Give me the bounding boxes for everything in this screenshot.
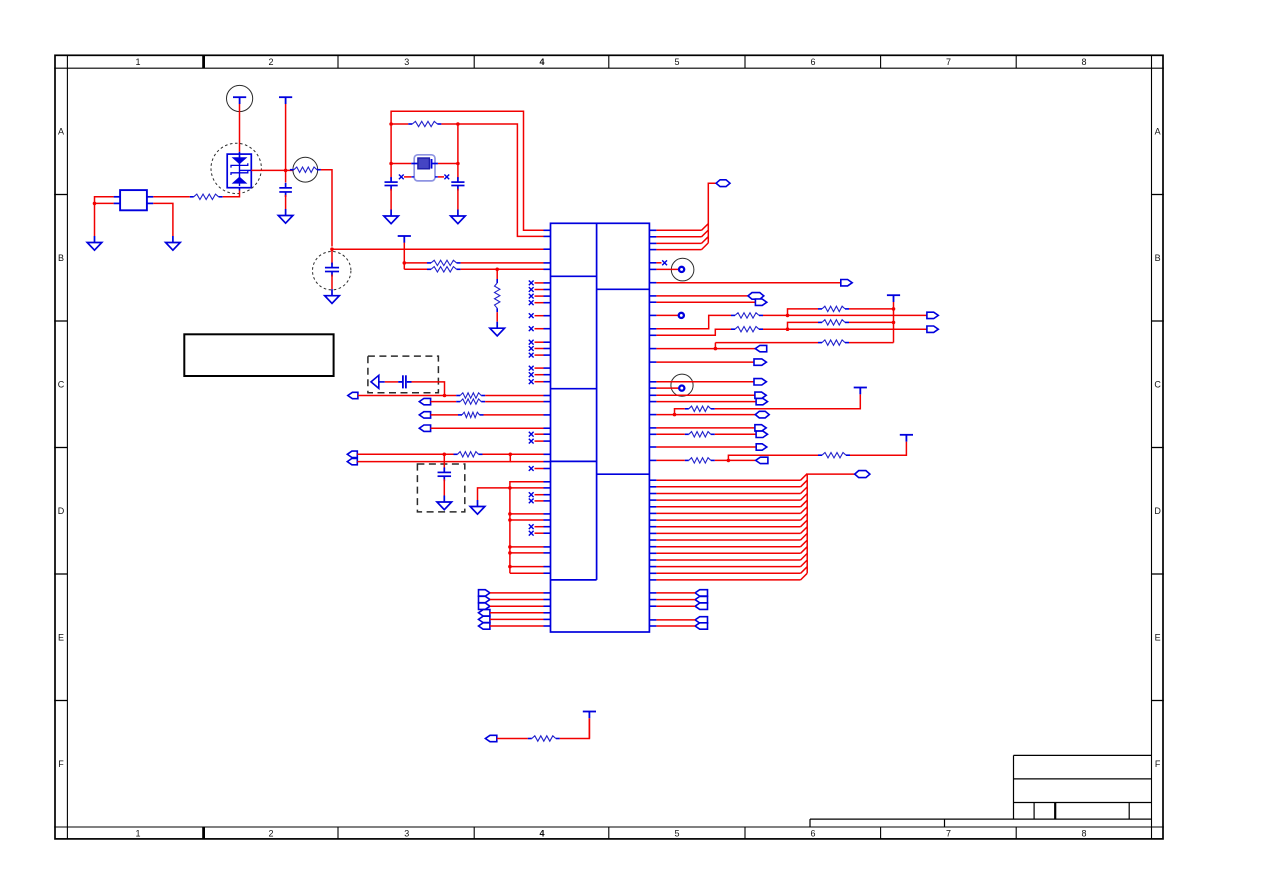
riser to row 408.8 [675,409,685,415]
wire data bus bit 9 [649,539,656,541]
off-page oval BR4 [695,617,707,623]
resistor R14 [818,321,822,323]
junction 728.4/460.4 [727,459,731,463]
wire R19 to VCC T2 [850,442,906,456]
wire R20 to VCC T [560,719,590,739]
wire bus row 513.9 [508,512,512,516]
column tick top 5 [608,55,610,68]
ground right of DB2 [470,500,485,514]
wire BL6 to IC [490,625,544,627]
svg-text:2: 2 [268,57,273,67]
riser to row 455.2 [728,455,818,460]
off-page oval BR2 [695,596,707,602]
wire C3 to ground [390,189,392,210]
wire R12 to VCC bus [849,308,894,310]
wire ground to bus net [478,488,510,500]
junction crystal left top [389,122,393,126]
power T-bar VCC 860 [854,388,867,395]
IC left pin 552.9 [544,552,551,554]
wire BR1 [649,592,656,594]
IC left pin 236.4 [544,235,551,237]
note box [184,334,333,376]
wire gnd row to IC [510,487,544,489]
off-page oval left 348.6 [755,345,766,351]
IC left pin 461.6 [544,461,551,463]
wire to oval 447.0 [649,446,656,448]
top ruler band line [54,67,1164,69]
junction 787.5/329.2 [786,327,790,331]
resistor R17 [685,433,689,435]
IC left pin 428.2 [544,427,551,429]
wire R15 to VCC bus corner [849,342,894,344]
no-connect left 526.7 [544,526,551,528]
off-page oval 381.8 [754,379,766,385]
row tick left 3 [54,573,67,575]
no-connect left 381.7 [544,381,551,383]
wire data bus bit 10 [649,546,656,548]
capacitor C6 [438,467,452,481]
wire BL1 to IC [490,592,544,594]
off-page oval OP2 [419,398,430,404]
wire data bus bit 15 [649,579,656,581]
wire to hex 295.9 [649,295,656,297]
resistor R12 [818,308,822,310]
off-page oval 434.3 [756,431,767,437]
svg-text:B: B [58,253,64,263]
wire 715.4 riser [714,343,716,349]
column tick bottom 7 [880,827,882,839]
right ruler band line [1151,55,1153,839]
off-page oval 315.4 [927,312,938,318]
wire J1 pin2 join [95,202,114,204]
wire R8 to IC [485,401,543,403]
wire data bus bit 14 [649,572,656,574]
wire top bus bit 2 [649,242,656,244]
wire to oval 302.2 [649,301,656,303]
no-connect left 468.5 [544,468,551,470]
ground in DB2 [437,496,452,510]
wire BR4 [649,619,656,621]
connector J1 pins [114,197,154,204]
wire VCC to TVS [239,104,241,152]
resistor R19 [818,454,822,456]
resistor R9 [458,414,462,416]
off-page oval 395.3 [755,392,766,398]
power T-bar bottom [583,712,596,719]
wire OP4 to IC [431,427,544,429]
wire BR5 [649,625,656,627]
column tick bottom 6 [744,827,746,839]
svg-text:E: E [1155,633,1161,643]
resistor R4 [404,268,427,270]
off-page oval BL2 [479,596,490,602]
wire crystal right vertical [457,124,459,179]
wire bus row 546.9 [508,545,512,549]
connector J1 box [120,190,147,210]
resistor R11 [731,314,735,316]
junction net row1 [443,394,447,398]
IC left pin 573.2 [544,572,551,574]
test pad TP1 circled [671,258,694,281]
svg-text:D: D [1154,506,1161,516]
svg-text:B: B [1155,253,1161,263]
junction pair link [509,453,513,457]
title block [810,755,1152,827]
wire R17 row 434.3 [649,433,656,435]
port arrow in DB1 [371,375,379,388]
wire data bus bit 0 [649,479,656,481]
ground at J1 pin4 [166,236,181,250]
wire crystal left vertical [390,124,392,179]
IC left pin 262.9 [544,262,551,264]
svg-text:A: A [58,126,64,136]
svg-text:8: 8 [1081,829,1086,839]
svg-text:6: 6 [810,57,815,67]
ground at J1 [87,236,102,250]
dashed box DB1 [368,356,439,393]
svg-text:F: F [58,759,64,769]
off-page oval BL1 [479,590,490,596]
capacitor C5 series [398,375,411,388]
junction R3 [403,261,407,265]
wire C5 to net row1 [412,382,445,396]
wire bus row 573.2 [510,572,544,574]
resistor R10 [454,453,458,455]
junction 787.5/315.4 [786,314,790,318]
row tick left 0 [54,194,67,196]
wire elbow 328.8 [649,328,656,330]
column tick bottom 5 [608,827,610,839]
wire elbow 335.3 [649,334,656,336]
wire R4 to IC [461,268,544,270]
svg-text:8: 8 [1081,57,1086,67]
off-page oval 427.9 [755,425,766,431]
resistor R6 [391,123,408,125]
off-page oval OP3 [419,412,430,418]
no-connect left 494.7 [544,494,551,496]
wire C4 to ground [457,189,459,210]
junction crystal left pin [389,162,393,166]
crystal Y1 [414,155,435,181]
wire R9 to IC [484,414,544,416]
wire top bus bit 1 [649,236,656,238]
no-connect left 441.1 [544,440,551,442]
off-page oval 401.6 [756,398,767,404]
svg-text:7: 7 [946,829,951,839]
bottom ruler band line [54,826,1164,828]
resistor R15 [818,342,822,344]
row tick right 3 [1152,573,1164,575]
svg-text:E: E [58,633,64,643]
svg-text:F: F [1155,759,1161,769]
wire OP3 to R9 [431,414,458,416]
no-connect left 296.1 [544,295,551,297]
ground at R5 [490,322,505,336]
wire J1 pin1 to ground [95,197,114,236]
IC U1 body [551,223,650,632]
IC left pin 487.9 [544,487,551,489]
no-connect left 289.5 [544,289,551,291]
junction DB2 tap [443,453,447,457]
svg-text:D: D [58,506,65,516]
wire BR2 [649,599,656,601]
column tick top 2 [202,55,205,68]
wire T-bar crossing to R3 R4 [403,243,405,270]
wire TVS bottom [223,191,240,197]
column tick bottom 4 [473,827,475,839]
column tick top 3 [337,55,339,68]
ground at C1 [278,209,293,223]
resistor R7 [456,395,460,397]
junction VCC 322.4 [892,321,896,325]
junction 715.4/348.6 [714,347,718,351]
wire R13 to oval [763,328,927,330]
junction 674.5/414.6 [673,413,677,417]
IC left pin 566.6 [544,566,551,568]
resistor R1 [190,196,194,198]
column tick bottom 8 [1015,827,1017,839]
power T-bar net B [398,236,411,243]
off-page oval BR3 [695,603,707,609]
svg-text:5: 5 [674,829,679,839]
wire net 414.6 [649,414,656,416]
svg-text:1: 1 [135,57,140,67]
wire data bus bit 4 [649,506,656,508]
wire BL5 to IC [490,618,544,620]
off-page oval 282.7 [841,280,852,286]
off-page oval BR1 [695,590,707,596]
junction crystal right top [456,122,460,126]
wire data bus bit 11 [649,552,656,554]
svg-text:A: A [1155,126,1161,136]
wire OP5 to R10 [357,453,453,455]
wire crystal top loop [391,111,543,230]
off-page oval OP6 [347,458,357,464]
IC left pin 269.3 [544,268,551,270]
IC left pin 230.3 [544,229,551,231]
no-connect left 533.2 [544,532,551,534]
no-connect left 500.9 [544,500,551,502]
border frame [55,55,1163,839]
wire C6 to ground [443,479,445,495]
test pad TP2 [649,314,656,316]
wire R3 to IC [461,262,544,264]
left ruler band line [66,55,68,839]
wire data bus bit 8 [649,532,656,534]
column tick top 7 [880,55,882,68]
svg-text:3: 3 [404,829,409,839]
IC left pin 513.9 [544,513,551,515]
svg-text:3: 3 [404,57,409,67]
wire bus row 552.9 [508,551,512,555]
IC left pin 461.6 wire [510,461,543,463]
wire bus row 520.0 [508,518,512,522]
VCC bus vertical [893,302,895,343]
wire long to oval 282.7 [649,282,656,284]
row tick left 1 [54,320,67,322]
capacitor C4 [451,177,464,190]
junction TVS output [284,169,288,173]
column tick bottom 2 [202,827,205,839]
no-connect left 434.2 [544,433,551,435]
wire J1 pin4 to ground [153,203,173,236]
column tick bottom 3 [337,827,339,839]
red bus vertical left [509,488,511,573]
svg-text:7: 7 [946,57,951,67]
crystal NC pins [411,176,414,178]
off-page oval OP1 [348,392,358,398]
wire R5 to ground [496,312,498,322]
off-page oval 302.2 [755,299,766,305]
IC left pin 249.2 [544,248,551,250]
ground at C4 [451,210,466,224]
off-page hex 414.6 [755,411,769,418]
wire T-bar down to C1 [285,104,287,183]
wire C2 to ground [331,275,333,290]
off-page oval BL4 [479,610,490,616]
wire TVS output to R2 [251,169,293,171]
junction crystal right pin [456,162,460,166]
capacitor C3 [385,177,398,190]
junction J1 ground net [93,202,97,206]
svg-text:1: 1 [135,829,140,839]
wire data bus bit 12 [649,559,656,561]
off-page oval OP4 [419,425,430,431]
off-page hex 295.9 [748,293,764,300]
row tick right 4 [1152,700,1164,702]
wire data bus bit 2 [649,493,656,495]
ground at C3 [384,210,399,224]
IC left pin 401.6 [544,401,551,403]
resistor R2 circled [293,157,318,182]
capacitor C2 circled [313,252,351,290]
wire top bus bit 0 [649,229,656,231]
test pad TP3 donut [649,387,656,389]
wire top bus bit 3 [649,249,656,251]
off-page oval 329.2 [927,326,938,332]
row tick left 4 [54,700,67,702]
wire to oval 401.6 [649,401,656,403]
resistor R5 vertical [496,279,498,283]
no-connect left 302.7 [544,302,551,304]
wire data bus bit 5 [649,512,656,514]
wire R14 to VCC bus [849,321,894,323]
wire tap to C6 [443,454,445,469]
no-connect left 315.7 [544,315,551,317]
resistor R8 [456,401,460,403]
off-page oval BL5 [479,616,490,622]
IC left pin 414.9 [544,414,551,416]
IC left pin 546.9 [544,546,551,548]
wire R17 to oval [715,433,757,435]
svg-text:4: 4 [539,57,544,67]
wire BL2 to IC [490,599,544,601]
column tick top 4 [473,55,475,68]
row tick right 2 [1152,447,1164,449]
svg-text:C: C [58,380,65,390]
TVS diode D1 [227,152,251,188]
IC left pin 520.0 [544,519,551,521]
wire to R5 [496,269,498,279]
wire up to R12 [788,309,819,316]
wire data bus bit 3 [649,499,656,501]
off-page hex oval top [716,180,730,187]
wire R18 row 460.4 [649,459,656,461]
no-connect left 328.7 [544,328,551,330]
off-page oval BL3 [479,603,490,609]
wire to oval 381.8 [649,381,656,383]
junction R5 pulldown [495,268,499,272]
wire R16 to VCC T [715,394,861,409]
junction node B [330,247,334,251]
wire BL3 to IC [490,605,544,607]
wire R1 to connector [153,196,189,198]
TVS dashed circle [211,143,261,193]
wire pair link down [357,454,510,461]
no-connect left 342.2 [544,341,551,343]
resistor R3 [404,262,427,264]
no-connect left 374.7 [544,374,551,376]
off-page oval 362.1 [754,359,766,365]
wire node B to IC pin [332,248,544,250]
no-connect left 282.9 [544,282,551,284]
resistor R18 [685,459,689,461]
wire 342.6 row [715,342,818,344]
resistor R20 [528,738,532,740]
svg-text:4: 4 [539,829,544,839]
wire bus elbow to pin 481.8 [510,482,544,488]
no-connect left 348.5 [544,348,551,350]
wire R10 to IC [483,453,544,455]
wire BR3 [649,605,656,607]
no-connect left 368.1 [544,367,551,369]
wire data bus bit 13 [649,566,656,568]
wire 348.6 to oval [649,348,656,350]
row tick right 1 [1152,320,1164,322]
off-page hex 474.1 [855,471,870,478]
IC left pin 454.3 [544,453,551,455]
wire R11 junction to oval [763,314,927,316]
wire R2 to node B [321,170,332,247]
wire R6 to IC pin2 [441,124,543,236]
off-page oval OP5 [347,451,357,457]
wire to R20 [497,738,528,740]
wire R7 to IC [485,395,543,397]
wire to oval 427.9 [649,427,656,429]
off-page oval BL6 [479,623,490,629]
power symbol circled VCC [227,85,253,111]
wire stub VCC bottom [588,718,590,738]
junction bus-gnd [508,486,512,490]
wire C1 to ground [285,195,287,209]
svg-text:6: 6 [810,829,815,839]
bus vertical right [807,474,855,573]
no-connect left 355.1 [544,354,551,356]
row tick left 2 [54,447,67,449]
power T-bar VCC right [887,295,900,302]
wire data bus bit 1 [649,486,656,488]
off-page oval 447.0 [756,444,767,450]
svg-text:2: 2 [268,829,273,839]
wire up to R14 [788,322,819,329]
svg-text:C: C [1154,380,1161,390]
wire bus row 566.6 [508,565,512,569]
off-page oval BR5 [695,623,707,629]
IC left pin 395.5 [544,395,551,397]
test pad TP3 circle [671,374,693,396]
wire OP1 to R7 [358,395,456,397]
ground at C2 [325,289,340,303]
